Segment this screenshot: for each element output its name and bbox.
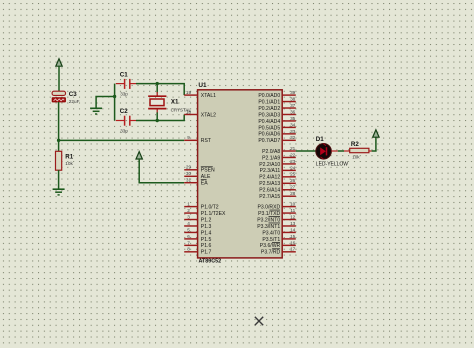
svg-text:4: 4 xyxy=(187,221,190,226)
svg-text:10k: 10k xyxy=(65,161,73,166)
pin 3 P1.2 (left) xyxy=(184,214,211,223)
svg-text:R1: R1 xyxy=(65,154,73,161)
svg-text:P2.0/A8: P2.0/A8 xyxy=(262,149,280,155)
pin 15 P3.5/T1 (right) xyxy=(262,234,295,243)
svg-text:P0.2/AD2: P0.2/AD2 xyxy=(258,106,280,112)
svg-text:5: 5 xyxy=(187,227,190,232)
svg-text:39: 39 xyxy=(290,90,296,95)
power flag (VCC arrow, right of R2) xyxy=(373,130,379,137)
pin 10 P3.0/RXD (right) xyxy=(258,202,296,211)
svg-text:P2.7/A15: P2.7/A15 xyxy=(259,194,280,200)
svg-text:P2.1/A9: P2.1/A9 xyxy=(262,155,280,161)
LED D1 xyxy=(316,136,349,167)
svg-text:14: 14 xyxy=(290,227,296,232)
crystal X1 xyxy=(148,92,191,113)
pin 11 P3.1/TXD (right) xyxy=(258,208,296,217)
svg-text:P2.2/A10: P2.2/A10 xyxy=(259,162,280,168)
wire RST node to chip pin 9 xyxy=(59,139,185,141)
svg-text:30: 30 xyxy=(186,171,192,176)
pin 18 XTAL2 (left) xyxy=(184,109,216,118)
svg-text:10k: 10k xyxy=(352,154,360,159)
svg-text:27: 27 xyxy=(290,185,296,190)
pin 35 P0.4/AD4 (right) xyxy=(258,116,295,125)
svg-text:P3.3/INT1: P3.3/INT1 xyxy=(257,224,280,230)
svg-text:P0.5/AD5: P0.5/AD5 xyxy=(258,125,280,131)
svg-text:P3.1/TXD: P3.1/TXD xyxy=(258,211,280,217)
wire C3 bottom to RST junction xyxy=(58,102,60,140)
svg-text:29: 29 xyxy=(186,165,192,170)
svg-text:C3: C3 xyxy=(69,91,77,98)
svg-text:31: 31 xyxy=(186,178,192,183)
svg-text:P2.4/A12: P2.4/A12 xyxy=(259,175,280,181)
svg-text:U1: U1 xyxy=(198,82,207,89)
svg-text:AT89C52: AT89C52 xyxy=(199,258,222,264)
svg-text:P1.3: P1.3 xyxy=(201,224,212,230)
svg-text:P0.6/AD6: P0.6/AD6 xyxy=(258,132,280,138)
svg-text:PSEN: PSEN xyxy=(201,168,215,174)
pin 6 P1.5 (left) xyxy=(184,234,211,243)
svg-text:P1.1/T2EX: P1.1/T2EX xyxy=(201,211,226,217)
pin 19 XTAL1 (left) xyxy=(184,90,216,99)
wire R1 to ground xyxy=(58,170,60,189)
svg-text:P3.4/T0: P3.4/T0 xyxy=(262,230,280,236)
power flag (VCC arrow, EA pin) xyxy=(136,152,142,159)
svg-text:25: 25 xyxy=(290,172,296,177)
svg-text:P3.5/T1: P3.5/T1 xyxy=(262,237,280,243)
wire junction to R1 xyxy=(58,140,60,151)
svg-text:37: 37 xyxy=(290,103,296,108)
svg-text:P1.4: P1.4 xyxy=(201,230,212,236)
svg-text:24: 24 xyxy=(290,165,296,170)
wire chip pin 21 to LED D1 xyxy=(296,150,316,152)
pin 24 P2.3/A11 (right) xyxy=(260,165,296,174)
junction node crystal bottom xyxy=(156,119,159,122)
svg-text:26: 26 xyxy=(290,178,296,183)
svg-text:33: 33 xyxy=(290,129,296,134)
svg-text:P3.6/WR: P3.6/WR xyxy=(260,243,281,249)
ground (middle, near C1/C2) xyxy=(90,108,102,114)
svg-text:13: 13 xyxy=(290,221,296,226)
pin 23 P2.2/A10 (right) xyxy=(259,159,296,168)
svg-text:P0.0/AD0: P0.0/AD0 xyxy=(258,93,280,99)
svg-text:2: 2 xyxy=(187,208,190,213)
svg-text:33p: 33p xyxy=(120,91,128,96)
svg-text:16: 16 xyxy=(290,240,296,245)
wire LED to R2 xyxy=(331,150,337,152)
svg-text:P1.5: P1.5 xyxy=(201,237,212,243)
wire C2 right to XTAL2 xyxy=(136,114,184,120)
pin 22 P2.1/A9 (right) xyxy=(262,152,296,161)
svg-text:23: 23 xyxy=(290,159,296,164)
svg-text:P0.3/AD3: P0.3/AD3 xyxy=(258,112,280,118)
pin 2 P1.1/T2EX (left) xyxy=(184,208,226,217)
wire EA power to chip pin 31 xyxy=(139,159,184,183)
svg-text:C2: C2 xyxy=(120,108,128,115)
svg-text:22uF: 22uF xyxy=(69,99,80,104)
svg-text:P3.2/INT0: P3.2/INT0 xyxy=(257,217,280,223)
pin 34 P0.5/AD5 (right) xyxy=(258,122,295,131)
svg-text:33p: 33p xyxy=(120,128,128,133)
svg-text:P1.0/T2: P1.0/T2 xyxy=(201,204,219,210)
svg-text:P1.6: P1.6 xyxy=(201,243,212,249)
svg-text:P0.1/AD1: P0.1/AD1 xyxy=(258,99,280,105)
junction node at ground tap xyxy=(113,95,116,98)
wire node to ground tap xyxy=(96,97,115,109)
capacitor C2 xyxy=(116,108,136,133)
pin 31 EA (left) xyxy=(184,178,208,187)
svg-text:XTAL1: XTAL1 xyxy=(201,93,216,99)
svg-text:D1: D1 xyxy=(316,136,324,143)
pin 28 P2.7/A15 (right) xyxy=(259,191,296,200)
wire R2 to power xyxy=(369,150,372,152)
svg-text:X1: X1 xyxy=(171,98,179,105)
svg-text:12: 12 xyxy=(290,214,296,219)
capacitor C1 xyxy=(116,72,136,97)
svg-text:22: 22 xyxy=(290,152,296,157)
svg-text:6: 6 xyxy=(187,234,190,239)
svg-text:P1.7: P1.7 xyxy=(201,250,212,256)
svg-text:8: 8 xyxy=(187,247,190,252)
svg-text:P3.7/RD: P3.7/RD xyxy=(261,250,281,256)
svg-text:1: 1 xyxy=(187,202,190,207)
pin 21 P2.0/A8 (right) xyxy=(262,146,296,155)
svg-text:P2.5/A13: P2.5/A13 xyxy=(259,181,280,187)
svg-text:P1.2: P1.2 xyxy=(201,217,212,223)
pin 16 P3.6/WR (right) xyxy=(260,240,296,249)
pin 29 PSEN (left) xyxy=(184,165,215,174)
wire C1-C2 left vertical bus xyxy=(114,84,116,121)
pin 9 RST (left) xyxy=(184,135,211,144)
svg-text:38: 38 xyxy=(290,96,296,101)
pin 32 P0.7/AD7 (right) xyxy=(258,135,295,144)
pin 7 P1.6 (left) xyxy=(184,240,211,249)
junction node crystal top xyxy=(156,82,159,85)
svg-text:28: 28 xyxy=(290,191,296,196)
svg-text:P2.6/A14: P2.6/A14 xyxy=(259,188,280,194)
wire crystal bottom stem xyxy=(156,112,158,120)
pin 26 P2.5/A13 (right) xyxy=(259,178,296,187)
svg-text:EA: EA xyxy=(201,181,208,187)
pin 4 P1.3 (left) xyxy=(184,221,211,230)
svg-text:18: 18 xyxy=(186,109,192,114)
pin 39 P0.0/AD0 (right) xyxy=(258,90,295,99)
svg-text:17: 17 xyxy=(290,247,296,252)
svg-text:C1: C1 xyxy=(120,72,128,79)
pin 17 P3.7/RD (right) xyxy=(261,247,296,256)
ground (below R1) xyxy=(53,189,65,195)
svg-text:34: 34 xyxy=(290,122,296,127)
pin 37 P0.2/AD2 (right) xyxy=(258,103,295,112)
svg-text:11: 11 xyxy=(290,208,295,213)
svg-text:9: 9 xyxy=(187,135,190,140)
svg-text:3: 3 xyxy=(187,214,190,219)
svg-text:XTAL2: XTAL2 xyxy=(201,112,216,118)
svg-text:19: 19 xyxy=(186,90,192,95)
svg-text:36: 36 xyxy=(290,109,296,114)
svg-text:P0.4/AD4: P0.4/AD4 xyxy=(258,119,280,125)
pin 33 P0.6/AD6 (right) xyxy=(258,129,295,138)
svg-text:P0.7/AD7: P0.7/AD7 xyxy=(258,138,280,144)
pin 25 P2.4/A12 (right) xyxy=(259,172,296,181)
pin 30 ALE (left) xyxy=(184,171,211,180)
svg-text:35: 35 xyxy=(290,116,296,121)
resistor R1 xyxy=(56,151,74,170)
pin 14 P3.4/T0 (right) xyxy=(262,227,295,236)
svg-text:32: 32 xyxy=(290,135,296,140)
svg-text:P3.0/RXD: P3.0/RXD xyxy=(258,204,281,210)
svg-text:10: 10 xyxy=(290,202,296,207)
pin 13 P3.3/INT1 (right) xyxy=(257,221,296,230)
capacitor C3 xyxy=(52,91,80,104)
pin 5 P1.4 (left) xyxy=(184,227,211,236)
resistor R2 xyxy=(350,141,369,160)
svg-text:P2.3/A11: P2.3/A11 xyxy=(260,168,281,174)
power flag (VCC arrow, top-left) xyxy=(56,59,62,92)
svg-text:7: 7 xyxy=(187,240,190,245)
svg-text:15: 15 xyxy=(290,234,296,239)
pin 8 P1.7 (left) xyxy=(184,247,211,256)
IC U1 AT89C52 microcontroller body xyxy=(198,90,283,258)
pin 12 P3.2/INT0 (right) xyxy=(257,214,296,223)
junction node at R1 top xyxy=(57,139,60,142)
origin marker x xyxy=(255,317,263,325)
svg-text:R2: R2 xyxy=(351,141,359,148)
pin 1 P1.0/T2 (left) xyxy=(184,202,219,211)
wire C1 right to XTAL1 xyxy=(136,84,184,96)
svg-text:ALE: ALE xyxy=(201,174,211,180)
svg-text:LED-YELLOW: LED-YELLOW xyxy=(316,161,349,167)
svg-text:21: 21 xyxy=(290,146,296,151)
wire crystal top stem xyxy=(156,84,158,93)
pin 27 P2.6/A14 (right) xyxy=(259,185,296,194)
pin 38 P0.1/AD1 (right) xyxy=(258,96,295,105)
svg-text:RST: RST xyxy=(201,138,211,144)
pin 36 P0.3/AD3 (right) xyxy=(258,109,295,118)
